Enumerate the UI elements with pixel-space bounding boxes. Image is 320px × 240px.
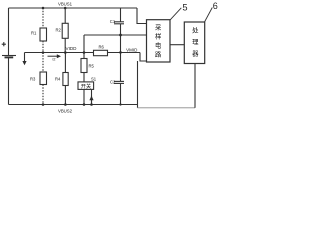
wire capacitor rail top <box>120 8 122 22</box>
svg-text:C1: C1 <box>110 19 116 24</box>
svg-text:器: 器 <box>192 50 199 58</box>
arrowhead i1 down <box>22 61 26 65</box>
svg-text:VIDD: VIDD <box>66 46 78 51</box>
wire left rail upper <box>8 8 10 55</box>
battery plus sign <box>2 42 6 46</box>
wire R5 to switch <box>83 73 85 82</box>
arrow current i1 <box>24 53 26 62</box>
arrowhead i2 right <box>57 54 61 58</box>
wire VMID to sampler <box>140 53 147 62</box>
capacitor C2 <box>114 81 124 83</box>
arrowhead switch up <box>89 96 93 100</box>
svg-text:S1: S1 <box>91 76 97 81</box>
callout line 5 <box>170 8 181 20</box>
svg-text:R6: R6 <box>99 45 105 50</box>
arrow current up into switch <box>91 96 93 105</box>
svg-text:路: 路 <box>155 50 162 59</box>
svg-text:R3: R3 <box>30 76 36 81</box>
svg-text:处: 处 <box>192 26 199 35</box>
svg-text:VBUS2: VBUS2 <box>58 109 73 114</box>
svg-text:电: 电 <box>155 41 162 50</box>
node VBUS1-R1 junction <box>42 7 45 10</box>
wire switch left leg <box>83 89 85 104</box>
wire R2 top <box>64 8 66 23</box>
svg-text:i2: i2 <box>53 58 56 62</box>
wire i2 arrow shaft <box>48 56 58 57</box>
svg-text:6: 6 <box>213 1 218 11</box>
wire sampler bottom down link <box>137 61 139 105</box>
capacitor C1 <box>114 22 124 24</box>
wire left rail lower <box>8 58 10 105</box>
node VIDD-R3 junction <box>42 51 45 54</box>
wire R5 top <box>83 35 85 59</box>
wire R1 dashed bottom <box>42 41 44 53</box>
processor box U2 <box>184 22 204 64</box>
node VBUS2-S1b junction <box>90 103 93 106</box>
wire sampler to processor <box>170 44 184 46</box>
wire capacitor rail bottom <box>120 83 122 104</box>
wire R4 top <box>64 53 66 73</box>
wire bottom link jog <box>137 105 139 108</box>
resistor R1 <box>40 28 47 41</box>
wire VMID rail <box>108 52 141 54</box>
node VBUS2-R3 junction <box>42 103 45 106</box>
node VIDD-R5 junction <box>83 51 86 54</box>
callout line 6 <box>205 8 213 23</box>
wire R1 dashed top <box>42 8 44 28</box>
svg-text:VMID: VMID <box>126 47 138 52</box>
wire R2 bottom <box>64 38 66 52</box>
wire R3 dashed bottom <box>42 85 44 105</box>
resistor R3 <box>40 72 47 85</box>
wire sampler top input <box>137 8 147 24</box>
svg-text:R5: R5 <box>89 63 95 68</box>
wire R4 bottom <box>64 86 66 105</box>
wire switch right leg <box>91 90 93 105</box>
resistor R6 <box>94 50 108 55</box>
node VBUS1-R2 junction <box>64 7 67 10</box>
switch S1 box <box>78 82 94 90</box>
svg-text:R4: R4 <box>55 77 61 82</box>
wire processor ground link <box>138 107 196 109</box>
node VIDD-C junction <box>119 34 122 37</box>
svg-text:VBUS1: VBUS1 <box>58 1 73 6</box>
wire capacitor rail mid <box>120 24 122 81</box>
wire VIDD rail <box>25 52 94 54</box>
svg-text:理: 理 <box>192 38 199 46</box>
wire processor down leg <box>194 64 196 108</box>
svg-text:采: 采 <box>155 23 162 32</box>
wire R3 dashed top <box>42 53 44 73</box>
battery BT1 <box>2 56 16 58</box>
wire top rail VBUS1 <box>9 7 138 9</box>
node VBUS2-C junction <box>119 103 121 105</box>
svg-text:开关: 开关 <box>81 82 91 90</box>
svg-text:R2: R2 <box>56 27 62 32</box>
resistor R5 <box>81 59 87 73</box>
wire VIDD feed to sampler <box>84 34 147 36</box>
sampler box U1 <box>147 20 171 62</box>
svg-text:C2: C2 <box>110 79 116 84</box>
svg-text:5: 5 <box>182 3 187 13</box>
wire bottom rail VBUS2 <box>9 104 138 106</box>
node VBUS2-S1a junction <box>83 103 86 106</box>
svg-text:样: 样 <box>155 32 161 41</box>
node VMID-C junction <box>119 51 122 54</box>
resistor R2 <box>62 23 68 38</box>
svg-text:R1: R1 <box>31 31 37 36</box>
node VIDD-R4 junction <box>64 51 67 54</box>
resistor R4 <box>63 73 68 86</box>
node VBUS2-R4 junction <box>64 103 67 106</box>
